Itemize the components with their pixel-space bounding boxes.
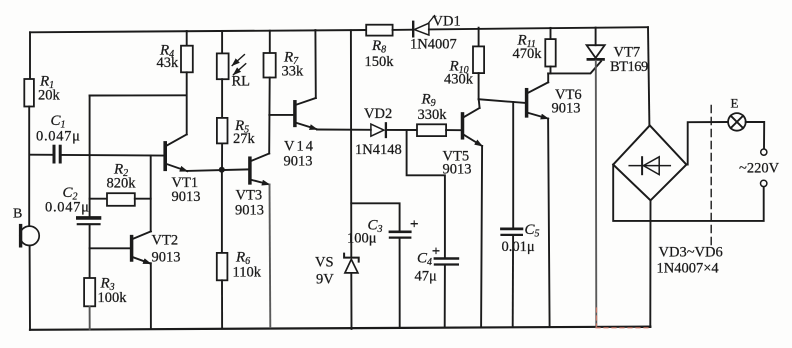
svg-text:9013: 9013: [152, 250, 181, 266]
resistor R9: [417, 124, 461, 136]
label R3: [98, 276, 128, 307]
wire zener to bottom rail: [350, 273, 352, 329]
wire bridge left vertex to lower terminal: [613, 165, 764, 221]
wire left vertical top: [29, 32, 31, 79]
svg-text:9013: 9013: [235, 203, 264, 219]
svg-text:0.047μ: 0.047μ: [36, 129, 81, 145]
wire VD2 junction down to C4: [407, 130, 445, 257]
wire VT1 emitter to VT3 base: [187, 169, 248, 171]
svg-text:9013: 9013: [284, 154, 313, 170]
svg-text:100μ: 100μ: [347, 231, 377, 247]
wire node A to C1: [30, 154, 52, 156]
svg-text:RL: RL: [232, 74, 251, 90]
wire top rail corner down to bridge: [648, 27, 649, 125]
wire VT5 emitter to bottom rail: [481, 146, 482, 327]
svg-text:V14: V14: [284, 139, 315, 155]
label R1: [38, 74, 61, 104]
transistor VT1: [165, 134, 187, 171]
label R7: [282, 50, 305, 80]
wire C5 tap down: [512, 102, 514, 227]
resistor R2: [90, 193, 151, 206]
wire R3 to bottom rail: [89, 306, 91, 329]
transistor VT6: [527, 82, 549, 118]
label C3: [347, 218, 383, 247]
wire V14 emitter to VD2: [317, 129, 371, 131]
wire mic to bottom rail: [29, 246, 31, 330]
label VT7: [610, 45, 648, 76]
label C1: [36, 113, 81, 145]
wire bottom rail: [30, 327, 650, 330]
label VS: [315, 255, 334, 288]
label R2: [107, 162, 137, 192]
svg-text:VS: VS: [315, 255, 334, 271]
label VD1: [410, 14, 461, 53]
wire VT7 cathode to bottom rail: [595, 61, 598, 327]
svg-text:20k: 20k: [38, 88, 61, 104]
red scan artifact marks: [596, 308, 652, 328]
wire R10 junction to VT6 base: [479, 99, 525, 103]
wire R1 to mic: [28, 107, 30, 227]
wire R7 to VT3 collector: [268, 78, 271, 154]
label V14: [284, 139, 315, 170]
svg-text:9013: 9013: [552, 101, 581, 117]
svg-text:9013: 9013: [443, 162, 472, 178]
dashed mains separator: [710, 106, 712, 247]
wire R8 to VD1: [393, 29, 413, 31]
svg-text:1N4007×4: 1N4007×4: [657, 261, 720, 277]
label VD2: [355, 106, 402, 158]
wire V14 collector to top rail: [314, 30, 316, 98]
node junction dot: [219, 167, 225, 173]
terminal lower: [761, 180, 767, 186]
wire VT5 collector up to R10 junction: [478, 99, 481, 108]
resistor R1: [24, 79, 34, 107]
diode VD2: [371, 123, 386, 137]
wire bridge right vertex up to lamp: [686, 122, 728, 165]
wire VT6 collector up to gate node: [547, 73, 549, 82]
svg-text:150k: 150k: [365, 54, 395, 70]
terminal upper: [761, 149, 767, 155]
label VT1: [172, 175, 201, 205]
svg-text:820k: 820k: [107, 176, 137, 192]
svg-text:43k: 43k: [157, 55, 180, 71]
label R11: [513, 33, 543, 63]
svg-text:B: B: [13, 207, 22, 222]
label C2: [45, 185, 90, 216]
wire C3 to bottom rail: [399, 239, 401, 328]
svg-text:VD1: VD1: [433, 14, 461, 30]
svg-text:VT2: VT2: [152, 233, 179, 249]
label R10: [444, 59, 474, 88]
label R5: [233, 118, 256, 147]
svg-text:9013: 9013: [172, 189, 201, 205]
wire C1 to VT1 base: [62, 154, 164, 157]
transistor VT3: [250, 154, 270, 185]
svg-text:27k: 27k: [233, 131, 256, 147]
wire VT3 collector to V14 base: [269, 114, 293, 116]
transistor V14: [295, 98, 317, 129]
photoresistor RL: [217, 31, 246, 79]
wire C2 to VT2 base junction: [89, 225, 91, 278]
resistor R8: [366, 25, 392, 36]
label C4: [415, 251, 438, 285]
label VT6: [552, 87, 582, 117]
bridge rectifier VD3-VD6: [613, 125, 686, 200]
thyristor VT7: [587, 28, 605, 60]
svg-text:100k: 100k: [98, 290, 128, 306]
transistor VT2: [90, 231, 151, 263]
label C5: [502, 222, 540, 255]
label VT5: [443, 149, 472, 178]
svg-text:VT3: VT3: [236, 188, 263, 204]
resistor R11: [545, 28, 555, 74]
capacitor C1: [54, 146, 60, 162]
diode VD1: [413, 16, 434, 37]
wire top rail right section: [429, 27, 648, 29]
svg-text:110k: 110k: [233, 265, 262, 281]
resistor R4: [181, 31, 193, 72]
capacitor C3: [390, 221, 417, 238]
svg-text:470k: 470k: [513, 46, 543, 62]
wire VT6 emitter to bottom rail: [548, 119, 550, 327]
zener diode VS: [344, 254, 359, 273]
svg-text:E: E: [731, 96, 739, 111]
label VD3-VD6: [657, 245, 723, 277]
svg-text:0.01μ: 0.01μ: [502, 239, 535, 255]
wire VT1 base tap down to VT2 collector: [150, 155, 152, 231]
resistor R10: [473, 28, 484, 100]
wire C4 to bottom rail: [444, 266, 446, 328]
svg-text:0.047μ: 0.047μ: [45, 200, 90, 216]
capacitor C4: [433, 248, 458, 264]
svg-text:33k: 33k: [282, 64, 305, 80]
wire vertical node X upper: [89, 96, 91, 217]
resistor R7: [264, 31, 276, 78]
resistor R3: [84, 278, 95, 306]
label R6: [233, 250, 262, 281]
svg-text:1N4007: 1N4007: [410, 37, 457, 53]
svg-text:47μ: 47μ: [415, 269, 438, 285]
svg-text:9V: 9V: [316, 272, 334, 288]
wire supply branch to C3: [351, 203, 399, 231]
wire collector feedback top link: [90, 94, 187, 96]
wire top rail left section: [30, 30, 366, 32]
svg-text:VD3~VD6: VD3~VD6: [659, 245, 723, 261]
svg-text:~220V: ~220V: [739, 161, 780, 177]
capacitor C2: [78, 218, 100, 224]
label VT2: [152, 233, 181, 266]
resistor R5: [217, 79, 228, 170]
microphone B: [20, 226, 39, 246]
lamp E: [728, 113, 746, 131]
wire junction down to R6: [221, 170, 223, 253]
capacitor C5: [502, 229, 522, 235]
wire R4 bottom to VT1 collector: [186, 72, 188, 134]
svg-text:430k: 430k: [444, 72, 474, 88]
wire VT2 emitter to bottom rail: [150, 263, 152, 329]
svg-text:VD2: VD2: [364, 106, 392, 122]
wire bridge bottom to rail end: [649, 200, 651, 326]
svg-text:1N4148: 1N4148: [355, 142, 402, 158]
wire lamp to upper terminal: [746, 122, 765, 149]
wire supply line down to zener: [350, 30, 352, 256]
wire VD2 to R9: [387, 129, 418, 131]
svg-text:BT169: BT169: [610, 59, 648, 75]
label VT3: [235, 188, 264, 219]
resistor R6: [217, 253, 228, 328]
label R9: [418, 92, 448, 124]
svg-text:330k: 330k: [418, 107, 448, 123]
transistor VT5: [463, 108, 483, 146]
wire gate node to SCR gate: [548, 61, 601, 73]
wire VT3 emitter to bottom rail: [269, 185, 272, 328]
wire C5 to bottom rail: [512, 236, 514, 327]
label R4: [157, 43, 180, 72]
label R8: [365, 38, 395, 70]
